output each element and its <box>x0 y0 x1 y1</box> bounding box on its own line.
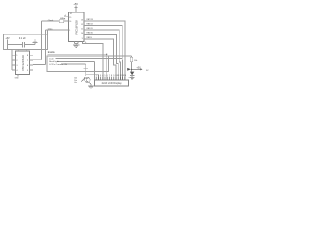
svg-text:GND: GND <box>15 78 20 80</box>
svg-text:6: 6 <box>85 42 86 44</box>
svg-text:Back light: Back light <box>49 60 59 63</box>
svg-text:RB5/11: RB5/11 <box>87 28 93 30</box>
svg-text:8: 8 <box>111 75 112 77</box>
svg-text:11: 11 <box>81 29 83 31</box>
svg-text:Clock: Clock <box>48 20 54 22</box>
svg-text:12: 12 <box>81 24 83 26</box>
svg-text:1: 1 <box>69 30 70 32</box>
svg-text:3: 3 <box>100 75 101 77</box>
svg-text:Enable: Enable <box>48 52 56 54</box>
svg-text:5: 5 <box>104 75 105 77</box>
svg-text:7: 7 <box>109 75 110 77</box>
svg-text:PIC16F628: PIC16F628 <box>74 20 78 35</box>
svg-text:10k: 10k <box>134 60 137 62</box>
svg-text:4: 4 <box>102 75 103 77</box>
svg-text:RB6/12: RB6/12 <box>87 23 93 25</box>
svg-text:RB7/13: RB7/13 <box>87 19 93 21</box>
svg-text:0.1 uF: 0.1 uF <box>19 37 26 40</box>
svg-text:15: 15 <box>69 17 71 19</box>
svg-text:10: 10 <box>81 33 83 35</box>
svg-text:2: 2 <box>98 75 99 77</box>
svg-text:14: 14 <box>70 13 72 15</box>
svg-text:LCD: LCD <box>49 58 54 60</box>
svg-text:16: 16 <box>69 21 71 23</box>
svg-text:x1: x1 <box>64 15 66 17</box>
svg-text:6: 6 <box>107 75 108 77</box>
svg-text:4MHz: 4MHz <box>60 18 65 20</box>
svg-text:14: 14 <box>124 75 126 77</box>
svg-text:1: 1 <box>96 75 97 77</box>
svg-text:+5V: +5V <box>136 66 141 69</box>
svg-text:Data: Data <box>48 27 53 30</box>
svg-text:+5V: +5V <box>73 2 78 6</box>
svg-text:RB3/9: RB3/9 <box>87 37 92 39</box>
svg-text:9: 9 <box>113 75 114 77</box>
svg-text:LCD's Current ON: LCD's Current ON <box>49 63 67 66</box>
svg-text:RB4/10: RB4/10 <box>87 32 93 34</box>
svg-text:13: 13 <box>81 20 83 22</box>
svg-text:9: 9 <box>82 38 83 40</box>
svg-text:Vcc: Vcc <box>74 82 77 84</box>
svg-text:2x16 LCD Display: 2x16 LCD Display <box>102 82 123 85</box>
svg-text:+5V: +5V <box>5 37 10 40</box>
svg-text:PIC12F629: PIC12F629 <box>21 55 25 71</box>
